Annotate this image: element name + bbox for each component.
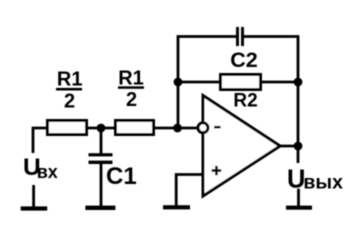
capacitor C1 plates (89, 153, 113, 164)
wire: R2 branch right (259, 81, 298, 84)
op-amp U1 triangle (203, 96, 280, 197)
svg-text:2: 2 (126, 89, 137, 111)
resistor R1/2 (first) body (48, 121, 87, 135)
wire: feedback left vertical + top wire left of C2 (178, 37, 238, 129)
wire: top wire right of C2 + right vertical down to output end (242, 37, 298, 164)
node: output junction (294, 142, 303, 151)
op-amp minus sign (214, 126, 221, 129)
wire: input left vertical + main horizontal line to op-amp (33, 128, 197, 153)
node: junction between R1/2 resistors (C1 tap) (97, 124, 106, 133)
svg-text:C2: C2 (230, 48, 258, 72)
ground: input terminal bar (21, 206, 48, 210)
wire: non-inverting input + down to ground (176, 175, 203, 207)
op-amp inverting input bubble (198, 123, 208, 133)
ground: C1 terminal bar (85, 206, 115, 210)
svg-text:R2: R2 (233, 91, 257, 112)
wire: R2 branch left (178, 81, 222, 84)
wire: op-amp output to right vertical (280, 145, 298, 148)
svg-text:R1: R1 (118, 68, 144, 90)
op-amp plus sign (212, 166, 222, 175)
label R1/2 (first) (56, 69, 82, 113)
svg-text:C1: C1 (106, 163, 137, 190)
ground: op-amp + input terminal bar (163, 205, 190, 209)
wire: C1 stem upper (100, 128, 103, 155)
svg-text:2: 2 (64, 91, 75, 113)
wire: input terminal stub (32, 185, 35, 208)
resistor R1/2 (second) body (116, 121, 154, 135)
wire: C1 stem lower (100, 163, 103, 208)
node: inverting input junction with feedback line (173, 124, 182, 133)
capacitor C2 plates (238, 27, 243, 46)
svg-text:R1: R1 (57, 69, 83, 91)
label R1/2 (second) (118, 68, 144, 112)
node: feedback line R2 junction right (294, 78, 303, 87)
ground: output terminal bar (286, 206, 312, 210)
resistor R2 body (221, 75, 261, 90)
wire: output terminal stub (297, 189, 300, 208)
node: feedback line R2 junction left (174, 78, 183, 87)
